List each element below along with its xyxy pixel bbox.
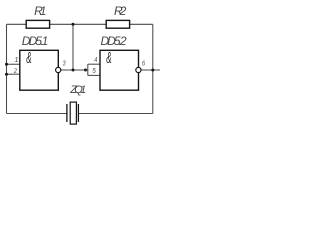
svg-text:ZQ1: ZQ1: [69, 84, 86, 96]
svg-text:5: 5: [92, 68, 96, 76]
svg-text:DD5.2: DD5.2: [101, 34, 127, 48]
svg-text:6: 6: [142, 60, 145, 68]
svg-text:R1: R1: [34, 4, 46, 18]
svg-text:&: &: [106, 49, 111, 67]
svg-text:&: &: [26, 49, 31, 67]
svg-text:3: 3: [63, 60, 66, 68]
svg-text:4: 4: [94, 56, 97, 64]
svg-text:DD5.1: DD5.1: [22, 34, 49, 48]
svg-text:1: 1: [14, 55, 18, 64]
svg-text:2: 2: [13, 67, 17, 75]
svg-text:R2: R2: [114, 4, 127, 18]
